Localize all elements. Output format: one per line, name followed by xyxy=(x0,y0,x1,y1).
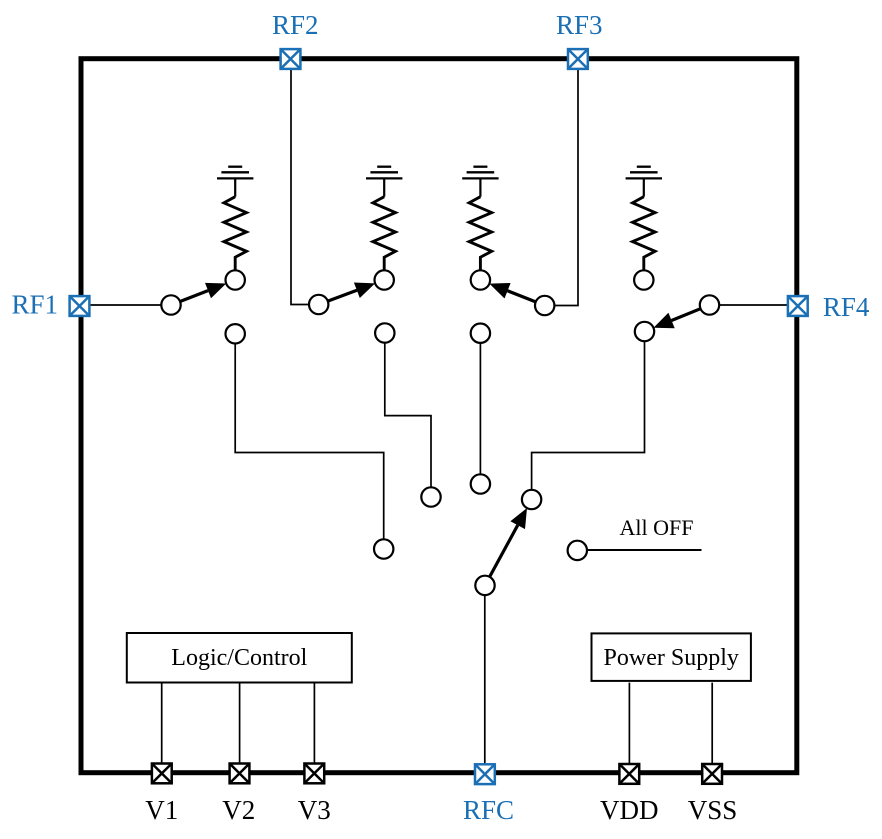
node: RFC throw contact 4 (from RF4) xyxy=(522,490,541,509)
port V3 xyxy=(304,764,324,784)
svg-text:V2: V2 xyxy=(222,795,255,825)
wire SW1 series contact to RFC throw 1 xyxy=(235,344,384,540)
switch SW1 arm with arrow xyxy=(180,291,208,302)
node: RFC throw contact 1 (from RF1) xyxy=(374,539,393,558)
wire RF4 port to SW4 pole xyxy=(719,304,788,306)
RFC switch arm with arrow (selecting RF4) xyxy=(490,525,518,577)
node: series throw contact of switch SW4 xyxy=(635,322,654,341)
node: shunt contact of switch SW2 (resistor 2 bottom terminal) xyxy=(375,270,394,289)
node: shunt contact of switch SW3 (resistor 3 bottom terminal) xyxy=(471,270,490,289)
svg-text:VSS: VSS xyxy=(688,795,738,825)
svg-text:All OFF: All OFF xyxy=(620,515,694,540)
node: RFC throw contact 3 (from RF3) xyxy=(471,474,490,493)
node: shunt contact of switch SW4 (resistor 4 bottom terminal) xyxy=(634,270,653,289)
node: pole of switch SW1 (RF1 side) xyxy=(161,295,180,314)
block: Power Supply xyxy=(592,633,751,681)
ground symbol G4 xyxy=(626,167,662,179)
wire All OFF contact stub xyxy=(587,549,701,551)
block: Logic/Control xyxy=(127,633,352,683)
switch SW4 arm with arrow xyxy=(672,309,701,321)
chip outline / package boundary xyxy=(81,59,797,773)
wire SW2 series contact to RFC throw 2 xyxy=(385,343,431,487)
ground symbol G2 xyxy=(366,167,402,179)
svg-text:V1: V1 xyxy=(145,795,178,825)
wire Logic/Control to V2 xyxy=(239,683,241,764)
svg-text:V3: V3 xyxy=(298,795,331,825)
svg-text:RF3: RF3 xyxy=(556,10,603,40)
svg-text:RF1: RF1 xyxy=(11,290,58,320)
switch SW3 arm with arrow xyxy=(508,291,536,302)
svg-text:RFC: RFC xyxy=(463,795,514,825)
port VDD xyxy=(619,764,639,784)
resistor R4 (shunt to ground) xyxy=(643,178,645,196)
port V1 xyxy=(152,764,172,784)
svg-text:Logic/Control: Logic/Control xyxy=(171,645,307,671)
port RF2 xyxy=(281,49,301,69)
node: series throw contact of switch SW2 xyxy=(375,323,394,342)
wire Power Supply to VSS xyxy=(711,683,713,764)
port V2 xyxy=(230,764,250,784)
ground symbol G3 xyxy=(462,167,498,179)
node: pole of switch SW3 (RF3 side) xyxy=(535,296,554,315)
node: All OFF open contact xyxy=(568,541,587,560)
node: RFC pole xyxy=(475,576,494,595)
resistor R2 (shunt to ground) xyxy=(383,178,385,196)
svg-text:RF2: RF2 xyxy=(272,10,319,40)
port VSS xyxy=(702,764,722,784)
switch SW2 arm with arrow xyxy=(328,290,357,301)
node: series throw contact of switch SW3 xyxy=(471,324,490,343)
wire Logic/Control to V3 xyxy=(313,683,315,764)
ground symbol G1 xyxy=(217,167,253,179)
node: shunt contact of switch SW1 (resistor 1 bottom terminal) xyxy=(226,270,245,289)
port RF1 xyxy=(70,296,90,316)
wire RF1 port to SW1 pole xyxy=(89,304,161,306)
port RFC xyxy=(475,764,495,784)
wire RF3 port down to SW3 pole xyxy=(555,69,579,306)
wire SW4 series contact to RFC throw 4 xyxy=(532,341,645,489)
port RF4 xyxy=(788,296,808,316)
resistor R3 (shunt to ground) xyxy=(479,178,481,196)
wire Power Supply to VDD xyxy=(628,683,630,764)
port RF3 xyxy=(568,49,588,69)
resistor R1 (shunt to ground) xyxy=(234,178,236,196)
node: series throw contact of switch SW1 xyxy=(226,324,245,343)
node: RFC throw contact 2 (from RF2) xyxy=(421,487,440,506)
svg-text:VDD: VDD xyxy=(600,795,659,825)
wire RFC pole down to RFC port xyxy=(484,595,486,764)
node: pole of switch SW2 (RF2 side) xyxy=(309,295,328,314)
node: pole of switch SW4 (RF4 side) xyxy=(700,295,719,314)
wire SW3 series contact to RFC throw 3 xyxy=(479,343,481,474)
svg-text:RF4: RF4 xyxy=(823,292,870,322)
svg-text:Power Supply: Power Supply xyxy=(604,645,739,671)
wire RF2 port down to SW2 pole xyxy=(291,69,309,305)
wire Logic/Control to V1 xyxy=(161,683,163,764)
